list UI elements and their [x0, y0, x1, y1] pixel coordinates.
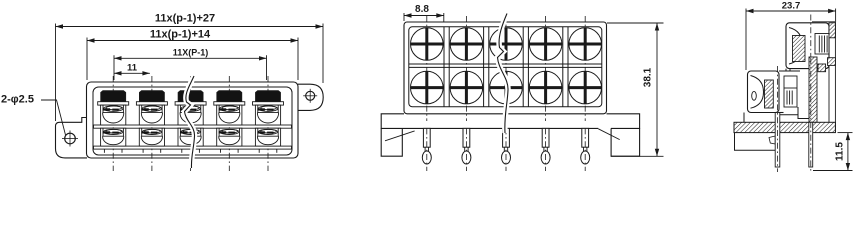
housing inner outline front view	[93, 87, 292, 155]
svg-text:11.5: 11.5	[835, 142, 846, 161]
terminal 2 clamp row2	[139, 128, 164, 146]
terminal 2 feet	[143, 149, 161, 153]
side view upper pin	[809, 122, 813, 167]
break line top view	[498, 14, 509, 134]
top view column 5 centerline	[584, 16, 586, 121]
terminal 4 wire entry cap (black)	[217, 91, 242, 102]
screw head col 5 row 2	[569, 71, 602, 104]
top view column 3 centerline	[505, 16, 507, 121]
pin 5 centerline	[584, 128, 586, 171]
cell wall 4	[562, 27, 564, 107]
terminal 5 feet	[259, 149, 277, 153]
terminal 5 clamp row1	[255, 105, 280, 125]
pin 4 centerline	[545, 128, 547, 171]
solder pin 3	[502, 128, 511, 164]
mounting plate top-right ear	[298, 84, 323, 110]
top view body outer outline	[404, 22, 607, 114]
terminal 1 feet	[104, 149, 122, 153]
terminal 4 feet	[221, 149, 239, 153]
svg-text:38.1: 38.1	[643, 67, 654, 87]
base foot left	[381, 128, 402, 156]
terminal column 4 centerline	[228, 76, 230, 171]
solder pin 2	[462, 128, 471, 164]
top view column 4 centerline	[545, 16, 547, 121]
upper clamp section (hatched)	[793, 36, 806, 62]
top view body inner outline	[409, 27, 602, 107]
screw head col 4 row 1	[529, 28, 562, 61]
dimension 11	[114, 63, 150, 76]
terminal 3 wire entry cap (black)	[178, 91, 203, 102]
svg-text:11X(P-1): 11X(P-1)	[173, 48, 209, 58]
terminal 4 top rail	[214, 102, 245, 105]
cell wall 3	[522, 27, 524, 107]
divider rail between row1 and row2	[94, 125, 292, 128]
terminal 5 top rail	[253, 102, 284, 105]
screw head col 3 row 2	[490, 71, 523, 104]
pin 2 centerline	[465, 128, 467, 171]
break line front view	[185, 76, 195, 168]
terminal column 2 centerline	[151, 76, 153, 171]
screw head col 2 row 1	[450, 28, 483, 61]
top view column 2 centerline	[465, 16, 467, 121]
upper screw axis	[810, 15, 812, 58]
mounting plate bottom-left ear	[56, 118, 88, 158]
bottom rail under row2	[94, 146, 292, 149]
terminal column 3 centerline	[190, 76, 192, 171]
svg-text:11: 11	[127, 63, 138, 74]
mounting hole left	[62, 131, 78, 147]
terminal 5 wire entry cap (black)	[256, 91, 281, 102]
cell wall 2	[483, 27, 485, 107]
terminal 1 clamp row2	[101, 128, 126, 146]
screw head col 2 row 2	[450, 71, 483, 104]
terminal 5 clamp row2	[255, 128, 280, 146]
side view lower housing	[748, 71, 780, 113]
side view lower pin	[775, 113, 780, 168]
terminal column 1 centerline	[112, 76, 114, 171]
svg-text:11x(p-1)+27: 11x(p-1)+27	[155, 13, 215, 25]
terminal 2 top rail	[136, 102, 167, 105]
mounting hole right	[303, 89, 317, 103]
terminal 1 top rail	[98, 102, 129, 105]
svg-text:23.7: 23.7	[782, 0, 801, 11]
housing outer outline front view	[87, 82, 299, 158]
flange plate section	[809, 22, 835, 133]
cell wall 1	[443, 27, 445, 107]
screw head col 4 row 2	[529, 71, 562, 104]
screw head col 3 row 1	[490, 28, 523, 61]
PCB section hatched	[734, 122, 835, 132]
lower wire entry oval	[752, 91, 757, 100]
side view upper housing	[786, 23, 829, 69]
dimension 11x(p-1)+27	[56, 13, 324, 122]
label 2-&#966;2.5 leader	[1, 94, 66, 136]
dimension 11x(p-1)+14	[87, 29, 298, 81]
bracket under PCB	[735, 133, 776, 151]
terminal column 5 centerline	[267, 76, 269, 171]
dimension 11X(P-1)	[114, 48, 267, 81]
solder pin 4	[541, 128, 550, 164]
terminal 2 clamp row1	[139, 105, 164, 125]
terminal 3 feet	[182, 149, 200, 153]
screw head col 1 row 1	[411, 28, 444, 61]
lower wire cavity	[751, 76, 764, 109]
dimension 23.7	[746, 0, 836, 70]
lower clamp section (hatched)	[765, 80, 774, 108]
lower screw shank	[784, 76, 797, 107]
svg-text:11x(p-1)+14: 11x(p-1)+14	[150, 29, 211, 41]
pedestal steps	[744, 69, 809, 123]
terminal 2 wire entry cap (black)	[139, 91, 164, 102]
screw head col 5 row 1	[569, 28, 602, 61]
pin 1 centerline	[426, 128, 428, 171]
base brace line right	[598, 129, 619, 140]
terminal 3 top rail	[175, 102, 206, 105]
terminal 1 wire entry cap (black)	[101, 91, 126, 102]
svg-text:8.8: 8.8	[415, 4, 429, 15]
solder pin 1	[422, 128, 431, 164]
terminal 4 clamp row2	[217, 128, 242, 146]
dimension 38.1	[607, 23, 664, 156]
pin 3 centerline	[505, 128, 507, 171]
terminal 4 clamp row1	[217, 105, 242, 125]
terminal 3 clamp row1	[178, 105, 203, 125]
upper wire cavity	[789, 28, 803, 65]
terminal 1 clamp row1	[101, 105, 126, 125]
base foot right	[611, 128, 640, 156]
solder pin 5	[581, 128, 590, 164]
screw head col 1 row 2	[411, 71, 444, 104]
top view column 1 centerline	[426, 16, 428, 121]
dimension 8.8	[404, 4, 444, 26]
base brace line left	[385, 131, 415, 141]
terminal 3 clamp row2	[178, 128, 203, 146]
top view row divider	[409, 63, 602, 65]
svg-text:2-φ2.5: 2-φ2.5	[1, 94, 34, 106]
dimension 11.5	[813, 133, 853, 171]
base plate top view	[381, 114, 639, 129]
upper screw shank	[815, 34, 829, 55]
